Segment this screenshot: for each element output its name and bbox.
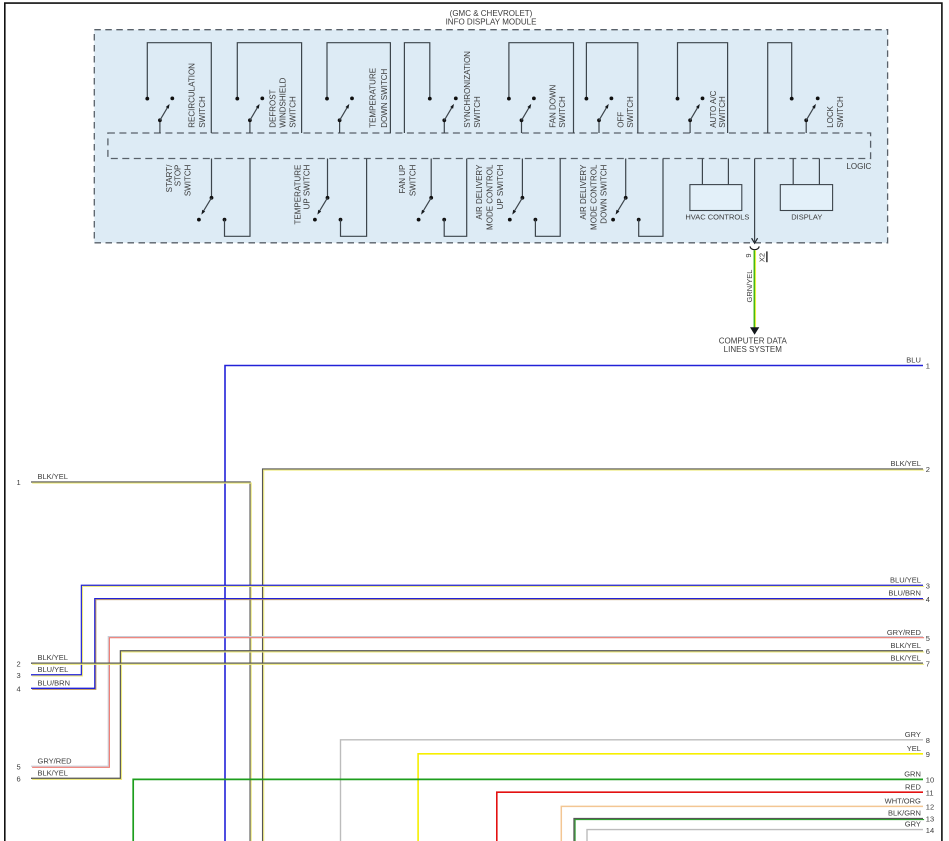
node: left pin 4 BLU/BRN — [17, 678, 71, 693]
svg-text:BLK/YEL: BLK/YEL — [890, 459, 920, 468]
svg-text:SWITCH: SWITCH — [184, 164, 193, 196]
svg-text:SWITCH: SWITCH — [558, 96, 567, 128]
svg-text:X2: X2 — [758, 253, 767, 262]
svg-text:AIR DELIVERY: AIR DELIVERY — [475, 164, 484, 220]
wire GRY circuit 14 — [587, 830, 923, 841]
wire YEL circuit 9 — [418, 754, 923, 841]
svg-text:SWITCH: SWITCH — [408, 164, 417, 196]
node: right pin 13 BLK/GRN — [888, 809, 934, 824]
svg-text:BLU/BRN: BLU/BRN — [888, 589, 921, 598]
svg-text:2: 2 — [17, 659, 21, 668]
wire BLK/YEL circuit 2-7 across — [31, 663, 924, 664]
logic block dashed box — [108, 133, 871, 159]
svg-text:AUTO A/C: AUTO A/C — [709, 90, 718, 127]
svg-text:8: 8 — [926, 736, 930, 745]
wire RED circuit 11 — [497, 792, 923, 841]
switch: synchronization — [404, 43, 482, 133]
svg-text:BLK/YEL: BLK/YEL — [38, 472, 68, 481]
wire BLK/GRN circuit 13 — [574, 819, 924, 841]
switch: start/stop — [165, 159, 250, 237]
svg-text:RECIRCULATION: RECIRCULATION — [188, 63, 197, 128]
svg-text:GRN: GRN — [904, 770, 921, 779]
node: right pin 10 GRN — [904, 770, 934, 785]
svg-text:WHT/ORG: WHT/ORG — [885, 797, 921, 806]
svg-text:9: 9 — [744, 253, 753, 257]
svg-text:12: 12 — [926, 803, 934, 812]
svg-text:3: 3 — [17, 671, 21, 680]
node: right pin 14 GRY — [905, 820, 934, 835]
wire BLK/YEL circuit 1 left — [31, 482, 251, 841]
wire GRY circuit 8 — [341, 740, 924, 841]
switch: fan up — [398, 159, 467, 237]
svg-text:BLK/YEL: BLK/YEL — [38, 653, 68, 662]
svg-text:14: 14 — [926, 826, 934, 835]
wire GRN/YEL to computer data lines system — [745, 250, 759, 334]
switch: temperature up — [293, 159, 366, 237]
svg-text:13: 13 — [926, 815, 934, 824]
switch: fan down — [507, 43, 574, 133]
title: INFO DISPLAY MODULE — [446, 9, 537, 26]
svg-text:GRY: GRY — [905, 730, 921, 739]
node: left pin 2 BLK/YEL — [17, 653, 68, 668]
svg-text:BLU/BRN: BLU/BRN — [38, 678, 71, 687]
svg-text:1: 1 — [17, 478, 21, 487]
node: right pin 9 YEL — [907, 744, 930, 759]
node: left pin 1 BLK/YEL — [17, 472, 68, 487]
module U1: info display module dashed box — [94, 30, 887, 243]
svg-text:LINES SYSTEM: LINES SYSTEM — [724, 345, 783, 354]
svg-text:5: 5 — [926, 634, 930, 643]
node: right pin 6 BLK/YEL — [890, 641, 930, 656]
svg-text:OFF: OFF — [616, 112, 625, 128]
svg-text:HVAC CONTROLS: HVAC CONTROLS — [685, 213, 749, 222]
svg-text:YEL: YEL — [907, 744, 921, 753]
switch: recirculation — [145, 43, 211, 133]
module output lead to pin 9 — [752, 159, 758, 244]
wire BLU/YEL circuit 3 — [31, 585, 924, 676]
svg-text:WINDSHIELD: WINDSHIELD — [279, 77, 288, 127]
svg-text:BLK/YEL: BLK/YEL — [890, 641, 920, 650]
node: left pin 5 GRY/RED — [17, 757, 73, 772]
svg-text:SYNCHRONIZATION: SYNCHRONIZATION — [463, 51, 472, 128]
svg-text:BLK/YEL: BLK/YEL — [38, 768, 68, 777]
connector X2 pin 9 — [744, 246, 767, 262]
svg-text:9: 9 — [926, 750, 930, 759]
svg-text:GRY/RED: GRY/RED — [887, 628, 922, 637]
svg-text:SWITCH: SWITCH — [198, 96, 207, 128]
node: right pin 12 WHT/ORG — [885, 797, 934, 812]
svg-text:BLU/YEL: BLU/YEL — [38, 665, 69, 674]
svg-text:FAN DOWN: FAN DOWN — [548, 84, 557, 127]
wire BLU/BRN circuit 4 — [31, 599, 924, 690]
svg-text:10: 10 — [926, 776, 934, 785]
svg-text:DISPLAY: DISPLAY — [791, 213, 822, 222]
switch: temperature down — [325, 43, 390, 133]
svg-text:SWITCH: SWITCH — [626, 96, 635, 128]
svg-text:SWITCH: SWITCH — [836, 96, 845, 128]
svg-text:4: 4 — [926, 595, 930, 604]
svg-text:2: 2 — [926, 465, 930, 474]
node: left pin 6 BLK/YEL — [17, 768, 68, 783]
svg-text:DOWN SWITCH: DOWN SWITCH — [600, 164, 609, 223]
node: right pin 2 BLK/YEL — [890, 459, 930, 474]
switch: auto a/c — [676, 43, 728, 133]
svg-text:11: 11 — [926, 788, 934, 797]
node: right pin 8 GRY — [905, 730, 930, 745]
svg-text:TEMPERATURE: TEMPERATURE — [293, 165, 302, 225]
svg-text:SWITCH: SWITCH — [718, 96, 727, 128]
svg-text:7: 7 — [926, 659, 930, 668]
svg-text:MODE CONTROL: MODE CONTROL — [486, 164, 495, 230]
wire BLK/YEL circuit 2 right — [263, 469, 925, 841]
svg-text:4: 4 — [17, 684, 21, 693]
svg-text:MODE CONTROL: MODE CONTROL — [589, 164, 598, 230]
switch: off — [585, 43, 638, 133]
svg-text:SWITCH: SWITCH — [473, 96, 482, 128]
svg-text:BLU: BLU — [906, 356, 921, 365]
svg-text:FAN UP: FAN UP — [398, 165, 407, 194]
svg-text:1: 1 — [926, 362, 930, 371]
switch: lock — [768, 43, 845, 133]
node: right pin 5 GRY/RED — [887, 628, 930, 643]
svg-text:STOP: STOP — [173, 165, 182, 187]
svg-text:GRY/RED: GRY/RED — [38, 757, 73, 766]
svg-text:AIR DELIVERY: AIR DELIVERY — [579, 164, 588, 220]
wire WHT/ORG circuit 12 — [561, 806, 923, 841]
svg-text:BLK/GRN: BLK/GRN — [888, 809, 921, 818]
svg-text:RED: RED — [905, 782, 921, 791]
node: left pin 3 BLU/YEL — [17, 665, 69, 680]
svg-text:UP SWITCH: UP SWITCH — [303, 164, 312, 209]
svg-text:UP SWITCH: UP SWITCH — [496, 164, 505, 209]
node: right pin 3 BLU/YEL — [890, 575, 930, 590]
svg-text:INFO DISPLAY MODULE: INFO DISPLAY MODULE — [446, 18, 537, 27]
svg-text:GRY: GRY — [905, 820, 921, 829]
wire BLK/YEL circuit 6 — [31, 651, 924, 780]
svg-text:SWITCH: SWITCH — [289, 96, 298, 128]
svg-text:3: 3 — [926, 582, 930, 591]
label: computer data lines system — [719, 336, 788, 354]
wire GRY/RED circuit 5 — [31, 637, 924, 768]
svg-text:LOCK: LOCK — [826, 105, 835, 127]
svg-text:6: 6 — [926, 647, 930, 656]
node: right pin 1 BLU — [906, 356, 930, 371]
switch: air delivery mode control down — [579, 159, 663, 237]
node: right pin 11 RED — [905, 782, 934, 797]
svg-text:5: 5 — [17, 763, 21, 772]
node: right pin 7 BLK/YEL — [890, 653, 930, 668]
svg-text:BLU/YEL: BLU/YEL — [890, 575, 921, 584]
svg-text:BLK/YEL: BLK/YEL — [890, 653, 920, 662]
svg-text:GRN/YEL: GRN/YEL — [745, 270, 754, 303]
svg-text:DEFROST: DEFROST — [268, 89, 277, 127]
wire BLU circuit 1 — [225, 366, 923, 841]
switch: defrost windshield — [235, 43, 301, 133]
node: right pin 4 BLU/BRN — [888, 589, 930, 604]
block: HVAC CONTROLS — [685, 159, 749, 222]
svg-text:DOWN SWITCH: DOWN SWITCH — [380, 68, 389, 127]
svg-text:LOGIC: LOGIC — [846, 162, 871, 171]
switch: air delivery mode control up — [475, 159, 560, 237]
wire GRN circuit 10 — [133, 779, 923, 841]
svg-text:6: 6 — [17, 774, 21, 783]
svg-text:TEMPERATURE: TEMPERATURE — [369, 68, 378, 128]
block: DISPLAY — [780, 159, 832, 222]
